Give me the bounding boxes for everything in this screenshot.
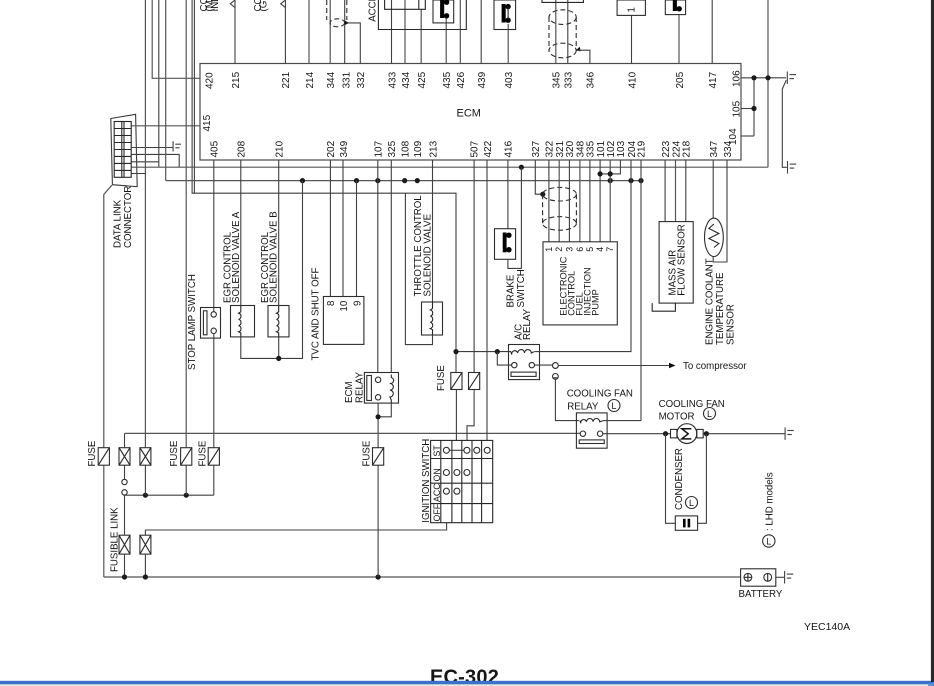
- svg-text:PUMP: PUMP: [591, 289, 601, 316]
- ignition switch contacts ON row: [443, 470, 470, 476]
- svg-text:422: 422: [483, 140, 494, 157]
- svg-text:347: 347: [709, 140, 720, 157]
- wire ECM pin 322 to pump pin 1: [548, 160, 550, 242]
- svg-text:221: 221: [281, 71, 292, 88]
- svg-text:ENGINE COOLANT: ENGINE COOLANT: [705, 258, 716, 345]
- cooling fan relay K3: [576, 413, 607, 448]
- svg-text:ACCEL: ACCEL: [368, 0, 379, 22]
- svg-text:410: 410: [627, 71, 638, 88]
- svg-text:To compressor: To compressor: [683, 361, 747, 372]
- ignition switch contacts ACC row: [443, 488, 460, 494]
- wire coolant sensor to ECM pin 334: [713, 160, 727, 262]
- label throttle control solenoid valve: [413, 195, 434, 297]
- svg-text:ON: ON: [432, 468, 442, 481]
- wire motor left to condenser: [666, 434, 676, 524]
- svg-text:BRAKE: BRAKE: [506, 274, 517, 307]
- label mass air flow sensor: [668, 224, 688, 296]
- TVC and shut off box: [323, 297, 364, 345]
- wire pin 434: [404, 0, 406, 64]
- electronic control fuel injection pump box: [543, 242, 617, 325]
- svg-text:: LHD models: : LHD models: [765, 472, 776, 531]
- label EGR control solenoid valve A: [223, 211, 243, 303]
- shield cylinder over 344/331 wires: [327, 0, 347, 27]
- wire ECM pin 213 to throttle valve: [432, 160, 434, 302]
- ECM left pin labels 420 415: [202, 72, 216, 132]
- wire cooling fan relay contact to motor: [603, 433, 671, 435]
- wire pin 410: [631, 15, 633, 63]
- short wire page top: [193, 0, 195, 193]
- wire pin 214: [308, 0, 310, 64]
- wire ECM pin 103 joins 102: [600, 160, 620, 174]
- box 1 (to pin 410): [617, 0, 645, 15]
- brake switch (connector symbol): [495, 229, 516, 260]
- break chevron on wire 215: [230, 0, 235, 8]
- svg-text:7: 7: [605, 247, 615, 252]
- wire A/C connector down to cooling fan relay coil: [555, 379, 579, 420]
- svg-text:435: 435: [442, 71, 453, 88]
- svg-text:331: 331: [341, 71, 352, 88]
- wire pin 345: [555, 0, 557, 64]
- svg-text:8: 8: [326, 301, 337, 306]
- wire FL2 bottom to battery bus: [144, 554, 146, 577]
- wire dlc row4 to bus A: [132, 161, 159, 163]
- svg-text:COOLING FAN: COOLING FAN: [567, 389, 633, 400]
- svg-text:(GLOW: (GLOW: [259, 0, 270, 12]
- wire dlc bottom taper to fuse column: [104, 185, 112, 448]
- label combination meter (glow lamp), cut at top: [253, 0, 270, 12]
- connector symbol in accel box (to pin 435): [433, 0, 454, 23]
- wire pin 344: [329, 0, 331, 64]
- legend circled L : LHD models: [763, 472, 776, 547]
- svg-text:FUSE: FUSE: [198, 440, 209, 466]
- battery BT1: [741, 569, 776, 586]
- wire A/C relay coil to ECM pin 204: [534, 160, 631, 352]
- wire ECM pin 105: [741, 108, 754, 110]
- svg-text:327: 327: [531, 140, 542, 157]
- svg-text:SWITCH: SWITCH: [516, 269, 527, 307]
- A/C relay K2: [509, 345, 540, 380]
- svg-text:FUSE: FUSE: [169, 440, 180, 466]
- svg-text:439: 439: [477, 71, 488, 88]
- data link connector shell: [111, 114, 137, 186]
- wire ECM pin 102 to pump pin 7: [609, 160, 611, 242]
- ECM box U1: [200, 64, 741, 161]
- connector symbol to pin 403: [494, 0, 516, 30]
- ignition switch contacts ST row: [443, 447, 490, 453]
- svg-text:320: 320: [565, 140, 576, 157]
- wire stop lamp switch to fuse: [213, 334, 215, 448]
- wire EGR valve B return: [278, 337, 280, 359]
- label combination meter (malfunction indicator lamp), cut at top: [199, 0, 221, 12]
- junction dot EGR return: [276, 356, 281, 361]
- svg-text:1: 1: [627, 7, 638, 12]
- TVC pin labels 8 10 9: [326, 300, 364, 311]
- fusible link FL1: [119, 535, 130, 554]
- svg-text:403: 403: [504, 71, 515, 88]
- ECM right pin labels 106 105 104: [728, 70, 743, 145]
- wire pin 221: [284, 0, 286, 64]
- svg-text:SOLENOID VALVE A: SOLENOID VALVE A: [231, 211, 242, 303]
- svg-text:416: 416: [504, 140, 515, 157]
- svg-text:COOLING FAN: COOLING FAN: [659, 399, 725, 410]
- wire ECM pin 224 to mass air flow sensor: [675, 160, 677, 222]
- ECM top pin labels: [231, 71, 719, 88]
- page bottom blue rule: [0, 681, 934, 685]
- vertical tie 106-105-104: [753, 78, 755, 136]
- svg-text:MOTOR: MOTOR: [659, 412, 695, 423]
- svg-text:CONDENSER: CONDENSER: [674, 448, 685, 510]
- ground (ECM pin 106, upper right): [787, 72, 796, 85]
- svg-text:106: 106: [732, 70, 743, 87]
- svg-text:1: 1: [544, 247, 554, 252]
- wire dlc to ground: [132, 147, 173, 149]
- wire pin 332 (shield drain): [349, 23, 361, 64]
- wire brake switch to bus A: [508, 167, 522, 268]
- svg-text:YEC140A: YEC140A: [804, 621, 850, 633]
- svg-text:415: 415: [202, 114, 213, 131]
- wire ECM pin 223 to mass air flow sensor: [664, 160, 666, 222]
- svg-text:345: 345: [552, 71, 563, 88]
- svg-text:4: 4: [595, 247, 605, 252]
- ground (cooling fan motor): [785, 427, 794, 440]
- svg-text:RELAY: RELAY: [522, 308, 533, 340]
- EGR control solenoid valve A: [231, 306, 255, 337]
- wire motor right to condenser: [698, 434, 707, 524]
- wire page top to A/C feed line: [192, 0, 456, 373]
- wire FL1 top to bus: [124, 495, 126, 535]
- ignition switch row labels: [432, 445, 442, 522]
- bus to fuses bottoms: [125, 494, 214, 496]
- svg-text:SENSOR: SENSOR: [726, 304, 737, 345]
- svg-text:420: 420: [205, 72, 216, 89]
- ground (lower right): [788, 161, 797, 174]
- svg-text:405: 405: [209, 140, 220, 157]
- wire pin 433: [391, 0, 393, 64]
- pump shield cylinder: [543, 187, 577, 230]
- wire ECM pin 210 to EGR valve B: [278, 160, 280, 306]
- ignition switch table: [431, 440, 493, 522]
- svg-text:10: 10: [339, 300, 350, 311]
- ground (data link connector): [173, 141, 181, 151]
- wire pin 215: [234, 0, 236, 64]
- svg-text:INDICATOR LAMP): INDICATOR LAMP): [210, 0, 221, 12]
- condenser C1: [675, 516, 697, 530]
- svg-text:344: 344: [326, 71, 337, 88]
- svg-text:107: 107: [374, 140, 385, 157]
- svg-text:L: L: [689, 498, 694, 508]
- circled L (cooling fan motor): [704, 408, 716, 420]
- fusible link connector X2: [140, 448, 151, 466]
- wire page top to bus B: [165, 0, 167, 181]
- svg-text:109: 109: [413, 140, 424, 157]
- label cooling fan relay: [567, 389, 633, 413]
- svg-text:434: 434: [401, 71, 412, 88]
- svg-text:325: 325: [387, 140, 398, 157]
- svg-text:IGNITION SWITCH: IGNITION SWITCH: [421, 439, 432, 523]
- connector symbol to pin 205: [665, 0, 685, 15]
- svg-text:103: 103: [616, 140, 627, 157]
- wire ground flag drop to lower right ground: [782, 80, 787, 167]
- svg-text:334: 334: [723, 140, 734, 157]
- bus A (ground bus under ECM): [132, 166, 769, 168]
- wire FL2 top to ignition switch: [145, 523, 446, 536]
- wires ECM relay outputs join: [377, 403, 379, 448]
- engine coolant temperature sensor (thermistor): [705, 218, 724, 256]
- shield drain arrow to wire 346: [576, 47, 581, 52]
- wire F2 bottom to bus: [185, 465, 187, 495]
- svg-text:FUSE: FUSE: [362, 440, 373, 466]
- wire ECM pin 347 to coolant temp sensor: [712, 160, 714, 218]
- wire from page top to right ground bus: [767, 0, 769, 167]
- svg-text:CONNECTOR: CONNECTOR: [123, 186, 134, 248]
- wire ECM pin 320 to pump pin 3: [568, 160, 570, 242]
- wire battery to ground: [776, 576, 784, 578]
- wire dlc to ECM pin 415: [132, 125, 201, 127]
- svg-text:L: L: [766, 537, 771, 547]
- label engine coolant temperature sensor: [705, 258, 737, 345]
- svg-text:433: 433: [387, 71, 398, 88]
- accel sensor box, cut at top: [378, 0, 466, 30]
- wire pin 417: [711, 0, 713, 64]
- svg-text:FLOW SENSOR: FLOW SENSOR: [677, 224, 688, 296]
- wire pin 205: [678, 14, 680, 64]
- wire A/C relay contact to compressor: [534, 364, 552, 366]
- svg-text:ST: ST: [432, 445, 442, 457]
- wire F3 bottom to bus: [213, 465, 215, 495]
- svg-text:214: 214: [305, 71, 316, 88]
- svg-text:ECM: ECM: [344, 381, 355, 403]
- connector circle pair: [553, 363, 559, 369]
- data link connector pin grid: [114, 122, 131, 178]
- svg-text:417: 417: [708, 71, 719, 88]
- wire ECM pin 107 / bus B to ECM relay contact: [377, 160, 379, 373]
- label cooling fan motor: [659, 399, 725, 423]
- wire ECM pin 327 to pump shield: [535, 160, 543, 194]
- wire pin 331: [344, 0, 346, 64]
- svg-text:L: L: [612, 401, 617, 411]
- circled L (condenser): [686, 497, 698, 509]
- label brake switch: [506, 269, 528, 307]
- wire F5 to ignition switch: [455, 390, 457, 441]
- fuse F4 (ECM relay output): [373, 448, 384, 466]
- stop lamp switch SW1: [201, 308, 221, 339]
- wire ECM pin 405 to stop lamp switch: [213, 160, 215, 312]
- wire ECM pin 321 to pump pin 2: [558, 160, 560, 242]
- svg-text:STOP LAMP SWITCH: STOP LAMP SWITCH: [187, 274, 198, 370]
- wire bus to A/C relay (from page-top feed): [456, 351, 511, 353]
- wire FL1 bottom to battery bus: [124, 554, 126, 577]
- wire pin 435: [445, 16, 447, 64]
- fuse F1: [98, 448, 109, 466]
- battery bus: [104, 576, 741, 578]
- svg-text:425: 425: [417, 71, 428, 88]
- svg-text:FUSE: FUSE: [436, 365, 447, 391]
- svg-text:210: 210: [275, 140, 286, 157]
- svg-text:L: L: [707, 409, 712, 419]
- wire ECM pin 202 to TVC pin 8: [329, 160, 331, 297]
- wire ECM pin 420 to page top: [152, 0, 200, 78]
- mass air flow sensor box: [659, 222, 693, 304]
- svg-text:108: 108: [401, 140, 412, 157]
- label A/C relay: [514, 308, 534, 340]
- svg-text:346: 346: [586, 71, 597, 88]
- svg-text:208: 208: [237, 140, 248, 157]
- fuse F3: [208, 448, 219, 466]
- long bus to cooling fan relay: [125, 432, 584, 434]
- ground (battery): [785, 571, 794, 584]
- fusible link FL2: [140, 535, 151, 554]
- svg-text:219: 219: [636, 140, 647, 157]
- svg-text:5: 5: [585, 247, 595, 252]
- label data link connector: [112, 186, 134, 248]
- wire branch to A/C relay contact: [497, 352, 512, 366]
- junction dots right of ECM: [751, 75, 770, 111]
- svg-text:ACC: ACC: [432, 483, 442, 502]
- wire motor to ground: [703, 433, 784, 435]
- svg-text:SOLENOID VALVE B: SOLENOID VALVE B: [269, 211, 280, 303]
- svg-text:FUSIBLE LINK: FUSIBLE LINK: [110, 507, 121, 572]
- svg-text:TEMPERATURE: TEMPERATURE: [715, 272, 726, 345]
- wire ECM pin 325 to ECM relay coil: [390, 160, 392, 373]
- svg-text:213: 213: [428, 140, 439, 157]
- svg-text:RELAY: RELAY: [355, 371, 366, 403]
- wire ECM pin 422 to ignition switch: [486, 160, 488, 440]
- wire F4 bottom to battery bus: [377, 465, 379, 577]
- svg-text:218: 218: [682, 140, 693, 157]
- svg-text:349: 349: [339, 140, 350, 157]
- svg-text:9: 9: [352, 301, 363, 306]
- wire ECM pin 106 to ground: [741, 77, 786, 79]
- cooling fan motor M1: [671, 424, 704, 444]
- wire pin 426: [459, 0, 461, 64]
- wire dlc row6 to fusible link column: [132, 173, 146, 175]
- throttle control solenoid valve: [422, 302, 443, 335]
- svg-text:215: 215: [231, 71, 242, 88]
- svg-text:2: 2: [554, 247, 564, 252]
- wire cooling fan relay coil to pin 219 wire: [604, 420, 642, 422]
- EGR control solenoid valve B: [268, 306, 289, 337]
- svg-text:6: 6: [575, 247, 585, 252]
- junction dots on bus A/B: [300, 165, 644, 184]
- wire F1 bottom down: [103, 465, 105, 577]
- wire EGR valves common return to bus B: [241, 181, 303, 359]
- wire throttle valve return to ECM relay: [405, 193, 432, 344]
- wire pin 439: [480, 0, 482, 64]
- svg-text:SOLENOID VALVE: SOLENOID VALVE: [423, 213, 434, 296]
- fusible link connector X1: [119, 448, 130, 466]
- svg-text:223: 223: [661, 140, 672, 157]
- svg-text:507: 507: [470, 140, 481, 157]
- svg-text:OFF: OFF: [432, 503, 442, 521]
- label ECM relay: [344, 371, 366, 403]
- wire X1 up to long bus: [124, 433, 126, 447]
- wire pin 346 (shield drain): [577, 50, 590, 63]
- svg-text:RELAY: RELAY: [567, 402, 599, 413]
- svg-text:332: 332: [356, 71, 367, 88]
- svg-text:TVC AND SHUT OFF: TVC AND SHUT OFF: [311, 267, 322, 360]
- wire page top to fuse column: [185, 0, 187, 448]
- wire pin 333: [567, 0, 569, 64]
- svg-text:333: 333: [564, 71, 575, 88]
- svg-text:ECM: ECM: [457, 108, 481, 120]
- svg-text:BATTERY: BATTERY: [739, 589, 783, 600]
- break chevron on wire 221: [281, 0, 286, 8]
- wire X1 down through inline connector circles: [124, 465, 126, 479]
- svg-text:3: 3: [564, 247, 574, 252]
- fuse F5: [451, 373, 462, 390]
- svg-text:105: 105: [732, 100, 743, 117]
- page right border: [931, 0, 934, 682]
- svg-text:426: 426: [456, 71, 467, 88]
- ECM bottom pin labels: [209, 140, 734, 157]
- pump pin labels 1 2 3 6 5 4 7: [544, 247, 615, 252]
- wire ECM pin 101 to pump pin 4: [599, 160, 601, 242]
- svg-text:DATA LINK: DATA LINK: [112, 199, 123, 248]
- wire F6 to ignition switch: [467, 390, 474, 441]
- label EGR control solenoid valve B: [260, 211, 280, 303]
- wire ECM pin 219 to cooling fan relay coil: [640, 160, 642, 421]
- label electronic control fuel injection pump: [559, 256, 601, 316]
- wire ECM pin 208 to EGR valve A: [240, 160, 242, 306]
- ECM relay K1: [364, 373, 398, 404]
- wire ECM pin 349 to TVC pin 10: [342, 160, 344, 297]
- svg-text:FUSE: FUSE: [87, 440, 98, 466]
- wire ECM pin 218 to mass air flow sensor: [685, 160, 687, 222]
- svg-text:205: 205: [675, 71, 686, 88]
- wire ECM pin 507 to fuse F6: [473, 160, 475, 373]
- circled L (cooling fan relay): [608, 400, 620, 412]
- wire X2 bottom to bus: [144, 465, 146, 495]
- wire ECM pin 348 to pump pin 6: [579, 160, 581, 242]
- bus B (supply bus under ECM): [166, 180, 641, 182]
- wire pin 403: [507, 24, 509, 64]
- shield drain arrow to wire 332: [345, 21, 349, 25]
- wire dlc row3 to bus A: [132, 154, 180, 167]
- wire TVC pin 9 to bus B: [356, 181, 358, 297]
- fuse F2: [181, 448, 192, 466]
- fuse F6: [469, 373, 480, 390]
- wire ECM pin 416 to brake switch: [507, 160, 509, 229]
- wire ECM pin 104: [741, 135, 754, 137]
- wire pin 425: [420, 9, 422, 63]
- wire ECM pin 335 to pump pin 5: [589, 160, 591, 242]
- wire to compressor with arrow: [558, 365, 669, 367]
- svg-text:202: 202: [326, 140, 337, 157]
- shield cylinder over 345/333 wires: [542, 0, 583, 2]
